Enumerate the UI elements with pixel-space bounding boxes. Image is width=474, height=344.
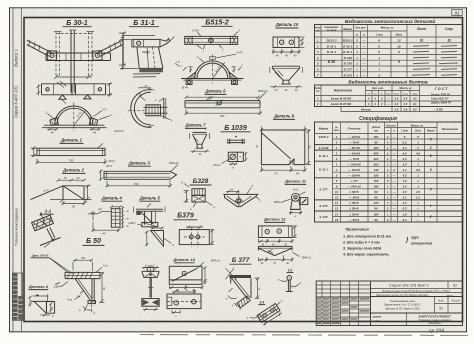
B30-1 arch leaders xyxy=(45,96,112,119)
B377 pad dims xyxy=(232,303,242,311)
2-2 post xyxy=(278,276,302,292)
Detal 7 funnel xyxy=(190,128,210,156)
TABLE3 header text xyxy=(319,123,459,132)
Detal 1 bar xyxy=(37,143,105,155)
title B379 xyxy=(174,213,198,220)
margin stamp block xyxy=(12,273,22,320)
1-1 rotated section xyxy=(32,212,61,248)
B515-2 dome xyxy=(180,51,244,90)
TABLE1 text xyxy=(315,25,454,43)
Detal 12 plate1 xyxy=(258,226,296,247)
label Detal 2 xyxy=(62,168,86,174)
B377 frame xyxy=(226,265,262,300)
label Detal 5 top xyxy=(204,89,226,95)
3-3 leaders xyxy=(247,300,283,320)
B377 hatched pad xyxy=(237,296,250,308)
B30-1 arch lower dims xyxy=(47,128,124,135)
B30-1 view1 right dim xyxy=(119,32,126,67)
page number box top right xyxy=(452,9,462,15)
B30-1 view2 dims xyxy=(37,83,113,97)
Detal 3 dims xyxy=(99,170,172,187)
label Detal 10 xyxy=(275,22,299,28)
TABLE2 text xyxy=(315,86,453,112)
TITLE BLOCK right xyxy=(371,281,463,326)
B31-1 view1 body xyxy=(137,47,163,72)
B31-1 C-arc view xyxy=(131,84,155,127)
B1039 small bone xyxy=(228,136,245,144)
B30-1 view1 columns xyxy=(54,30,94,93)
B30-1 view1 left diagonal xyxy=(27,40,57,60)
title B30-1 xyxy=(63,18,92,27)
B328 V-plate xyxy=(223,184,262,207)
scan shadow line bottom xyxy=(140,335,471,336)
TABLE3 title xyxy=(359,115,397,122)
title B31-1 xyxy=(129,18,159,27)
I-beam section xyxy=(142,265,159,311)
B515-2 top bar xyxy=(185,28,241,52)
Detal 9 big plate xyxy=(255,126,312,175)
margin line B xyxy=(20,8,22,332)
Detal 2 wedge xyxy=(31,177,92,208)
label Detal 3 xyxy=(128,160,151,166)
TABLE3 grid xyxy=(315,122,463,222)
margin text: Серия xyxy=(14,86,19,119)
Detal 14 plate2 xyxy=(167,289,201,318)
B50 chain label xyxy=(31,254,74,274)
B50 top plate xyxy=(65,272,100,278)
B1039 square with circle xyxy=(213,152,248,169)
Detal 3 bar xyxy=(104,161,179,180)
margin text: Выпуск 1 xyxy=(14,49,19,67)
B31-1 view1 bar xyxy=(132,37,175,47)
Detal 12 plate2 xyxy=(258,246,311,265)
Detal 1 dims xyxy=(31,147,116,164)
3-3 rotated channel xyxy=(257,303,282,326)
handwritten sr104 xyxy=(429,328,444,335)
Detal 10 plate xyxy=(272,37,305,58)
margin text: Типовые конструкции xyxy=(14,208,18,246)
B30-1 arch feet xyxy=(50,117,98,125)
B30-1 view1 right diagonal xyxy=(93,40,123,60)
label Detal 6 xyxy=(28,283,62,290)
TITLE BLOCK outer xyxy=(316,281,462,326)
label Detal 1 xyxy=(60,138,84,144)
TABLE3 data rows xyxy=(319,135,432,222)
margin line A xyxy=(12,8,14,332)
B30-1 arch center and radius xyxy=(74,103,86,132)
B50 top dim xyxy=(73,257,109,272)
Detal 10 funnel xyxy=(270,66,303,92)
label Detal 7 xyxy=(184,123,206,129)
Detal 11 keyhole xyxy=(273,188,308,218)
label 2-2 xyxy=(287,268,294,272)
Detal 5 long bar xyxy=(185,89,269,118)
Detal 5 mid section xyxy=(129,204,166,227)
label 1-1 xyxy=(43,208,54,214)
B31-1 view1 dims xyxy=(120,35,180,70)
TITLE BLOCK left text marks xyxy=(317,299,370,324)
Detal 6 drawing xyxy=(28,294,54,318)
label Detal 9 xyxy=(273,114,295,120)
TABLE2 title xyxy=(348,78,428,85)
label Detal 11 xyxy=(284,179,307,185)
label Detal 5 mid xyxy=(139,195,161,201)
title B1039 xyxy=(221,125,251,132)
TABLE1 handwriting marks xyxy=(412,46,458,76)
NOTES primechaniya xyxy=(342,228,433,257)
title B328 xyxy=(190,178,212,185)
B30-1 arch view base xyxy=(42,125,107,128)
B30-1 view2 plate xyxy=(42,81,106,99)
label Detal 4 left xyxy=(101,195,123,201)
TABLE1 title xyxy=(345,18,436,25)
B30-1 view1 cross band xyxy=(46,53,111,61)
title B50 xyxy=(83,236,105,245)
TITLE BLOCK left grid xyxy=(316,281,370,326)
TABLE1 grid xyxy=(315,25,463,78)
B31-1 smudge text xyxy=(133,74,160,77)
Detal 14 plate1 xyxy=(169,266,206,292)
title B377 xyxy=(230,257,252,264)
B50 leg and brace xyxy=(54,272,107,315)
label Detal 12 xyxy=(263,217,286,223)
label 3-3 xyxy=(258,300,265,304)
Detal 4 grid plate xyxy=(88,205,130,235)
TABLE2 grid xyxy=(315,85,463,112)
B31-1 clamp xyxy=(128,98,173,122)
title B515-2 xyxy=(202,18,233,27)
B379 gusset xyxy=(145,227,174,247)
B30-1 arch arcs xyxy=(55,106,93,125)
B328 drawing xyxy=(182,180,216,210)
label Detal 14 xyxy=(173,257,221,269)
B379 plate xyxy=(179,226,214,247)
